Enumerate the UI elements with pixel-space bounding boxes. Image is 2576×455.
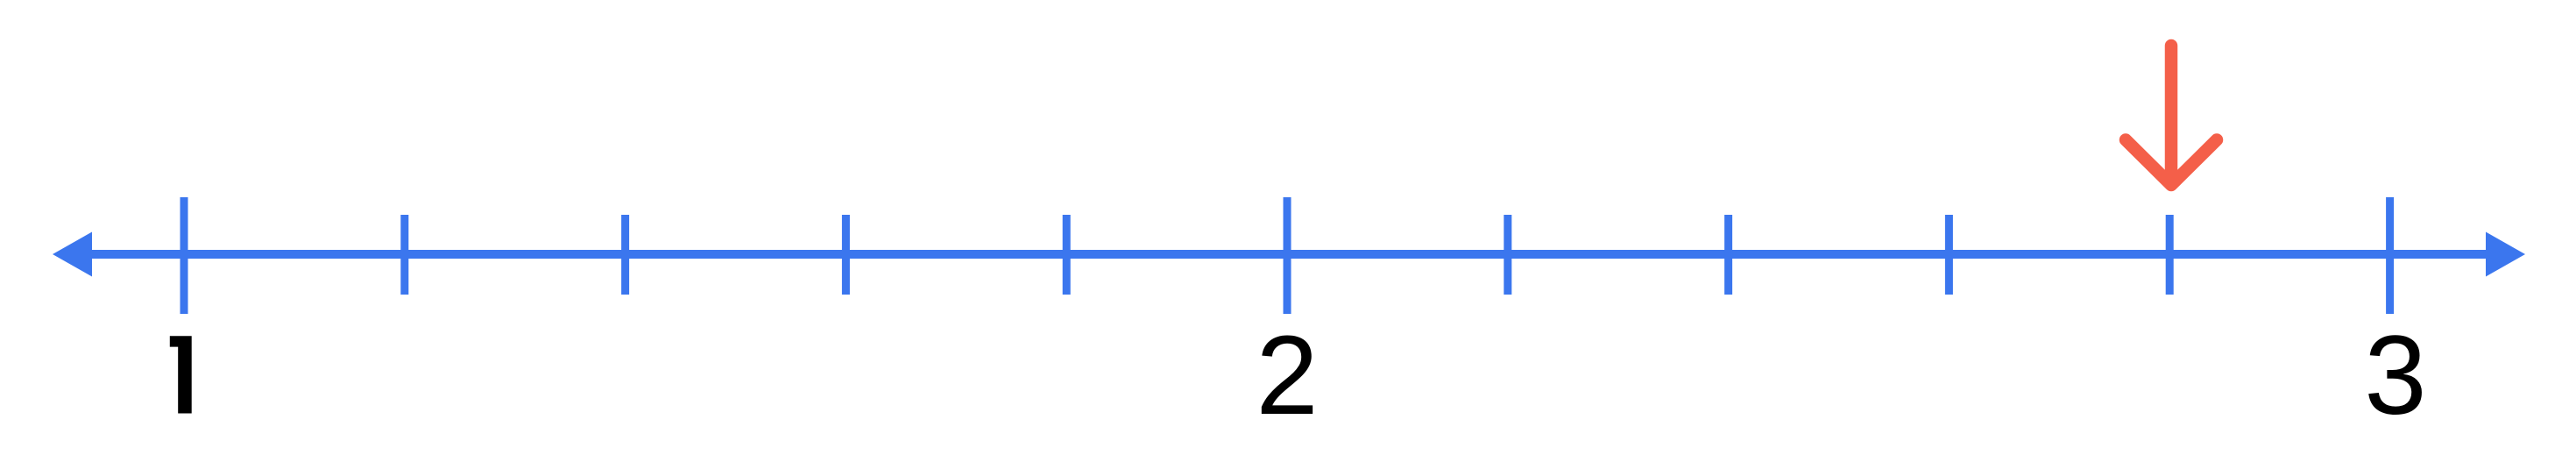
minor tick at 2.6 [1945, 215, 1953, 295]
minor tick at 2.8 [2166, 215, 2174, 295]
major tick at 2 [1284, 197, 1292, 314]
label 1 [170, 336, 192, 413]
minor tick at 1.4 [621, 215, 629, 295]
minor tick at 2.2 [1504, 215, 1511, 295]
right arrowhead [2486, 232, 2525, 277]
minor tick at 2.4 [1724, 215, 1732, 295]
minor tick at 1.6 [842, 215, 850, 295]
number line main horizontal wire [86, 250, 2492, 259]
major tick at 3 [2386, 197, 2394, 314]
svg-text:2: 2 [1256, 313, 1318, 438]
svg-text:3: 3 [2364, 313, 2426, 438]
red pointer arrow at 2.8 [2126, 46, 2217, 185]
major tick at 1 [180, 197, 188, 314]
minor tick at 1.2 [400, 215, 408, 295]
left arrowhead [53, 232, 92, 277]
minor tick at 1.8 [1063, 215, 1071, 295]
